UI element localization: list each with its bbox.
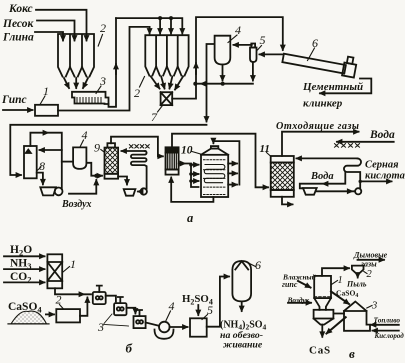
bowl under absorber — [303, 188, 317, 195]
svg-text:Глина: Глина — [2, 32, 34, 44]
wire elevator 2 up arrow — [195, 63, 197, 74]
svg-text:живание: живание — [223, 340, 263, 351]
mixer tank 3b — [114, 297, 126, 315]
svg-text:Кокс: Кокс — [8, 3, 33, 15]
svg-text:гипс: гипс — [282, 280, 298, 289]
wire elevator up arrow — [115, 64, 117, 74]
wire bowl to pump — [317, 190, 355, 192]
feeder 3 — [72, 92, 109, 104]
spray marks right — [335, 144, 360, 148]
reactor 5 (b) — [190, 318, 207, 336]
wire mill2 up to line — [80, 298, 87, 316]
label 7 pointer — [158, 106, 163, 113]
svg-text:б: б — [126, 341, 133, 356]
node dust junction — [221, 82, 225, 86]
node distributor dots — [189, 163, 193, 167]
svg-text:5: 5 — [260, 33, 266, 47]
wire box5 to column6 — [207, 277, 229, 327]
wire water spray line — [337, 141, 394, 143]
bunkers 2 (right group of four) — [145, 35, 188, 89]
wire CO2 feed — [4, 281, 45, 283]
heat exchanger column — [166, 147, 179, 174]
wire dust drop — [357, 275, 359, 278]
svg-text:Топливо: Топливо — [374, 316, 401, 325]
tower 9 — [105, 143, 119, 179]
svg-text:3: 3 — [97, 320, 104, 334]
label 11 pointer — [267, 153, 272, 157]
svg-text:7: 7 — [151, 110, 158, 124]
crusher 1 — [35, 105, 58, 116]
wire mill to elevator right — [172, 17, 283, 99]
cyclone 2 (v) — [352, 266, 364, 275]
centrifuge 6 (b) — [232, 261, 251, 301]
wire cyclone5 to cyclone4 — [234, 44, 252, 46]
pump 4 (b) — [155, 322, 174, 339]
label 6 pointer — [308, 48, 315, 61]
svg-text:клинкер: клинкер — [303, 98, 343, 110]
wire contact bottom return — [171, 178, 213, 202]
wire contact stage outlets — [228, 163, 237, 165]
label 1 pointer (v) — [332, 281, 338, 285]
svg-text:1: 1 — [43, 84, 49, 98]
label 6 pointer (b) — [250, 264, 256, 267]
svg-text:2: 2 — [100, 21, 106, 35]
pump circle near bowl — [141, 188, 147, 194]
wire dryer top gas — [322, 268, 349, 276]
mill 2 (b) — [56, 309, 80, 322]
svg-text:11: 11 — [260, 143, 270, 155]
wire pile to mill2 — [46, 313, 54, 315]
wire coke feed — [36, 10, 87, 41]
svg-text:Дымовые: Дымовые — [353, 251, 388, 260]
svg-text:Пыль: Пыль — [346, 280, 367, 289]
wire CaSO4 transfer arrow — [331, 292, 349, 305]
wire exchanger to contact top — [172, 134, 268, 188]
wire clinker out — [320, 79, 371, 94]
wire air supply — [69, 180, 96, 194]
label 2 pointer (b) — [60, 305, 64, 310]
wire furnace 8 slag drop — [37, 173, 43, 185]
wire column1 outlet — [55, 288, 91, 294]
svg-text:Кислород: Кислород — [374, 332, 405, 340]
label 2 pointer (right group) — [140, 77, 145, 88]
node junction dot — [158, 16, 162, 20]
absorber 11 — [271, 156, 294, 197]
furnace 8 nozzle — [26, 150, 31, 153]
wire coil to tower9 — [122, 150, 146, 152]
mixer tank 3c — [134, 310, 146, 328]
wire exchanger side to distributor — [179, 164, 199, 188]
node air junction — [94, 174, 98, 178]
svg-text:4: 4 — [235, 23, 241, 37]
wire cyclone 5 dust drop — [252, 62, 254, 81]
bunkers 2 (left group of three) — [58, 34, 94, 88]
wire CaS drop — [321, 325, 323, 337]
wire tower9 top gas line — [111, 137, 163, 157]
saturator column 1 — [47, 254, 62, 288]
wire contact right manifold — [213, 141, 239, 185]
label 1 pointer — [40, 96, 45, 105]
svg-text:2: 2 — [134, 86, 140, 100]
wire pump riser — [359, 181, 361, 188]
wire pump to box5 — [170, 326, 188, 328]
wire main gas duct — [10, 125, 206, 175]
wire kiln head to cyclone 5 — [260, 53, 283, 55]
svg-text:Воздух: Воздух — [61, 199, 91, 210]
node junction dot — [169, 16, 173, 20]
label 10 pointer — [192, 152, 201, 155]
wire dust return line — [195, 83, 253, 85]
wire gypsum feed — [3, 109, 33, 111]
mixer tank 3a — [93, 286, 106, 305]
label 3 pointer — [96, 86, 101, 94]
wire H2O feed — [4, 255, 45, 257]
label 4 pointer (b) — [166, 311, 171, 321]
svg-text:4: 4 — [169, 299, 175, 313]
label 3 pointer (v) — [367, 306, 372, 309]
svg-text:3: 3 — [371, 301, 377, 312]
wire drop to bunker b3 — [170, 18, 172, 33]
wire cyclone 4 dust drop — [222, 65, 224, 81]
svg-text:Песок: Песок — [2, 18, 34, 30]
wire furnace 8 gas loop — [30, 133, 61, 189]
wire acid return to absorber top — [297, 157, 358, 159]
label 4 pointer — [228, 35, 237, 43]
acid cooler coil — [344, 158, 361, 181]
wire water to bowl — [300, 172, 346, 188]
label 1 pointer (b) — [63, 267, 70, 273]
wire clay feed — [35, 32, 63, 41]
label 2 pointer — [98, 35, 102, 47]
contact apparatus 10 — [201, 146, 228, 197]
svg-text:1: 1 — [338, 275, 343, 286]
svg-text:в: в — [349, 346, 355, 361]
wire absorber drain — [282, 197, 293, 205]
label 4 pointer (second) — [80, 140, 84, 147]
svg-text:Серная: Серная — [365, 160, 399, 171]
furnace 8 — [24, 146, 37, 178]
wire fuel arrow — [371, 324, 399, 326]
label 5 pointer (b) — [202, 315, 208, 320]
wire drop to bunker b2 — [159, 18, 161, 33]
wire recycle into furnace 8 — [40, 149, 62, 151]
wire oxygen arrow — [373, 330, 399, 332]
label 5 pointer — [258, 46, 262, 51]
wire gas into contact top — [212, 141, 214, 143]
fluid-bed dryer 1 (v) — [314, 276, 331, 310]
cyclone 4 — [215, 36, 231, 65]
wire tank c to pump — [146, 323, 159, 326]
wire sand feed — [37, 21, 75, 41]
cyclone 4 (second) — [73, 147, 86, 169]
wire crusher to elevator — [58, 27, 148, 111]
label 3 pointers (b) — [104, 314, 129, 326]
wire tank b to c — [127, 308, 136, 314]
svg-text:а: а — [187, 211, 193, 225]
wire NH3 feed — [4, 268, 45, 270]
label 8 pointer — [37, 167, 41, 171]
wire H2SO4 into box5 — [197, 305, 199, 315]
svg-text:Цементный: Цементный — [302, 81, 363, 93]
svg-text:CaS: CaS — [309, 345, 331, 357]
wire distributor arrows — [191, 164, 199, 166]
wire pump to bowl — [138, 191, 140, 193]
wire flue gas arrow — [358, 259, 385, 261]
cooler vessel (v) — [314, 310, 334, 325]
pump circle (acid) — [355, 188, 361, 194]
kiln 6 — [282, 45, 357, 77]
wire tank a to b — [106, 296, 116, 302]
wire acid product out — [360, 180, 391, 182]
svg-text:9: 9 — [94, 141, 100, 155]
reduction furnace 3 (v) — [344, 302, 370, 331]
svg-text:Гипс: Гипс — [1, 94, 27, 106]
gypsum pile — [8, 311, 49, 324]
wire wet gypsum arrow — [298, 281, 311, 288]
svg-text:газы: газы — [361, 260, 377, 269]
wire cyclone4-2 outlet — [86, 163, 102, 176]
cyclone 5 — [250, 44, 257, 63]
wire top distribution line — [116, 18, 182, 33]
label 9 pointer — [101, 150, 105, 153]
svg-text:Вода: Вода — [369, 129, 395, 141]
svg-text:5: 5 — [207, 303, 213, 317]
wire CaS transfer arrow — [327, 317, 346, 333]
node dust junction — [193, 82, 197, 86]
wire cooler to furnace3 — [333, 313, 344, 315]
svg-text:3: 3 — [99, 74, 106, 88]
svg-text:6: 6 — [312, 36, 318, 50]
svg-text:2: 2 — [367, 269, 373, 280]
svg-text:10: 10 — [181, 145, 193, 157]
svg-text:8: 8 — [39, 159, 45, 173]
svg-text:1: 1 — [70, 257, 76, 271]
mill 7 — [161, 92, 173, 105]
svg-text:кислота: кислота — [365, 171, 405, 182]
label 2 pointer (v) — [364, 272, 367, 274]
wire tower9 bottom outlet — [118, 177, 127, 185]
wire column6 product down — [241, 301, 243, 311]
svg-text:2: 2 — [56, 293, 62, 307]
wire exhaust gas out — [282, 132, 359, 156]
spray marks over coil — [129, 145, 149, 148]
wire cyclone 4 gas duct down — [207, 44, 215, 122]
ladle under furnace 8 — [40, 187, 62, 195]
wire arrow into bunker b1 — [149, 27, 151, 34]
svg-text:6: 6 — [255, 258, 261, 272]
svg-text:Вода: Вода — [310, 171, 334, 182]
cooling coil (scheme a) — [131, 151, 147, 189]
bowl under tower 9 — [124, 189, 136, 196]
wire feeder outlet to elevator — [109, 18, 117, 107]
svg-text:4: 4 — [82, 128, 88, 142]
wire air arrow (v) — [288, 302, 311, 304]
svg-text:Отходящие газы: Отходящие газы — [276, 121, 360, 132]
